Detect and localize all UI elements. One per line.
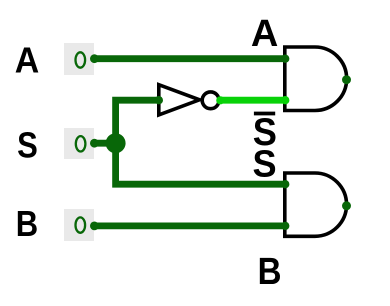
label S-bar overline [254,112,275,116]
AND1 input nub NOT-S (high) [281,96,289,104]
AND2 input nub S [281,180,289,188]
input box S [64,128,94,159]
input A value 0 [76,52,86,67]
svg-text:B: B [258,250,282,293]
input B value 0 [76,217,86,232]
svg-text:S: S [17,125,38,166]
pin dot B box [90,222,99,231]
svg-text:B: B [16,204,38,245]
AND1 input nub A [281,55,289,63]
pin dot S box [90,139,99,148]
input box B [64,209,94,241]
wire NOT-S (high) [216,97,285,104]
svg-text:S: S [253,142,277,185]
AND1 output dot [342,75,351,84]
pin dot A box [90,54,99,63]
wire S net: up to inverter, down and right to AND2 [116,100,285,184]
wire A (low) [94,55,285,62]
inverter U3 bubble [202,92,219,109]
AND2 output dot [342,201,351,210]
AND gate U2 (bottom) [285,173,347,236]
input S value 0 [76,136,86,151]
inverter output nub (high) [216,96,224,104]
svg-text:A: A [251,13,278,55]
wire S stub to junction [94,140,116,147]
svg-text:A: A [15,40,40,80]
inverter U3 triangle [159,85,200,115]
wire B (low) [94,222,285,229]
junction node S [106,133,126,153]
input box A [64,43,94,75]
inverter input nub [155,96,163,104]
AND gate U1 (top) [285,47,347,111]
AND2 input nub B [281,222,289,230]
